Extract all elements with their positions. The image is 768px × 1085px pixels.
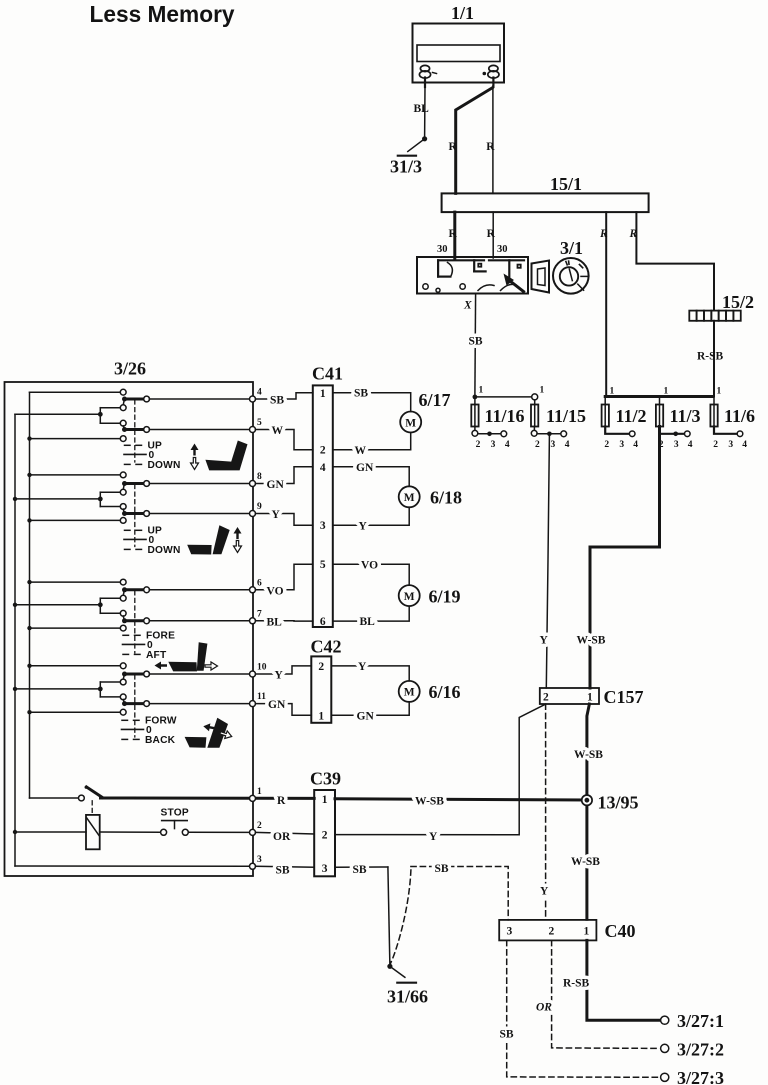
- wire GN motor 6/16 to C42 pin1: [331, 702, 409, 723]
- svg-text:4: 4: [320, 462, 326, 474]
- wire SB C39 pin3 to ground 31/66: [335, 864, 390, 966]
- wire R thick battery to 15/1: [449, 88, 493, 193]
- wire Y box pin10 to C42 pin2: [256, 666, 312, 682]
- wire SB row from bus C corner: [15, 865, 250, 867]
- svg-text:Y: Y: [359, 520, 368, 532]
- wire SB dashed jumper to C40 pin 3: [411, 863, 508, 920]
- svg-text:BL: BL: [360, 616, 376, 628]
- switch position labels: [122, 716, 177, 746]
- connector C42: [311, 656, 331, 722]
- svg-text:R: R: [277, 795, 286, 807]
- connector C39 label: [310, 769, 341, 789]
- svg-text:13/95: 13/95: [598, 793, 639, 813]
- box 3/26 terminal pin 10: [250, 663, 267, 678]
- wire VO box pin6 to C41 pin5: [256, 564, 313, 597]
- box 3/26 terminal pin 5: [250, 418, 263, 433]
- svg-text:OR: OR: [536, 1002, 552, 1014]
- wire SB C41 pin1 to motor 6/17: [333, 388, 411, 412]
- svg-text:1: 1: [479, 386, 484, 396]
- fuse 11/2: [602, 397, 647, 427]
- svg-text:3/27:2: 3/27:2: [677, 1039, 724, 1059]
- wire Y box pin9 to C41 pin3: [256, 509, 313, 525]
- box 3/26 terminal pin 11: [250, 692, 267, 707]
- svg-text:3: 3: [322, 863, 328, 875]
- fuse 11/6: [710, 397, 755, 427]
- svg-text:2: 2: [320, 445, 326, 457]
- switch group 4 common feed: [13, 679, 126, 700]
- svg-text:STOP: STOP: [161, 808, 189, 819]
- svg-text:Y: Y: [429, 831, 438, 843]
- switch group 1 alt contact row bottom: [27, 436, 126, 442]
- fuse 11/3 terminals 2 3 4: [659, 431, 693, 450]
- wire Y C42 pin2 to motor 6/16: [331, 661, 409, 681]
- wire link 11/16 to 11/15 terminal 1: [475, 386, 545, 400]
- switch group 4 alt contact row top: [27, 663, 126, 669]
- wire BL from battery negative: [414, 87, 430, 139]
- svg-text:BACK: BACK: [145, 735, 176, 746]
- fuse 11/15: [531, 400, 586, 436]
- svg-text:2: 2: [535, 440, 540, 450]
- terminal 3/27:3: [661, 1068, 724, 1085]
- svg-text:W-SB: W-SB: [415, 796, 444, 808]
- svg-text:10: 10: [257, 663, 267, 673]
- ground 31/66: [387, 964, 428, 1007]
- bus C vertical (common): [14, 414, 16, 866]
- svg-text:11/3: 11/3: [670, 406, 701, 426]
- svg-text:6/16: 6/16: [429, 682, 461, 702]
- switch group 4 blade 2: [122, 700, 150, 707]
- wire SB dashed C40 pin3 to terminal 3/27:3: [500, 940, 660, 1077]
- battery 1/1 label: [451, 3, 474, 23]
- relay solenoid: [86, 815, 100, 849]
- switch group 2 blade 2: [122, 509, 150, 516]
- svg-text:6/19: 6/19: [429, 586, 461, 606]
- svg-text:1: 1: [540, 386, 545, 396]
- svg-text:1: 1: [610, 387, 615, 397]
- wire R 15/1 to fuse 15/2: [629, 212, 715, 310]
- svg-text:5: 5: [320, 559, 326, 571]
- svg-text:15/2: 15/2: [722, 292, 754, 312]
- wire group 3 output 1 to box terminal: [149, 589, 249, 591]
- fusebox 15/1 label: [550, 174, 582, 194]
- svg-text:W: W: [272, 425, 284, 437]
- motor 6/17: [400, 390, 450, 433]
- svg-text:Y: Y: [272, 509, 281, 521]
- svg-text:4: 4: [742, 440, 747, 450]
- svg-text:SB: SB: [354, 388, 368, 400]
- wire W motor 6/17 to C41 pin2: [333, 433, 411, 457]
- switch group 1 alt contact row top: [30, 389, 127, 395]
- svg-text:W-SB: W-SB: [574, 749, 603, 761]
- connector C157: [540, 688, 599, 704]
- svg-text:11: 11: [257, 692, 266, 702]
- svg-text:4: 4: [633, 440, 638, 450]
- svg-text:GN: GN: [267, 479, 285, 491]
- ignition switch 3/1 label: [560, 238, 583, 258]
- svg-text:2: 2: [476, 440, 481, 450]
- switch group 2 alt contact row bottom: [27, 518, 126, 524]
- wire group 3 output 2 to box terminal: [149, 620, 249, 622]
- main switch blade: [85, 786, 103, 798]
- arrow right hollow group 3: [205, 662, 218, 670]
- svg-text:3/27:1: 3/27:1: [677, 1011, 724, 1031]
- svg-text:3/26: 3/26: [114, 359, 146, 379]
- node fuse 11/16 terminal 1: [473, 386, 484, 400]
- arrow left solid group 4: [203, 722, 216, 732]
- switch group 4 blade 1: [122, 671, 150, 679]
- control unit 3/26 label: [114, 359, 146, 379]
- svg-text:3: 3: [551, 440, 556, 450]
- switch group 2 alt contact row top: [27, 472, 126, 478]
- svg-text:Y: Y: [540, 635, 549, 647]
- wire R main switch to C39 pin 1 (thick): [101, 797, 315, 800]
- svg-text:3: 3: [619, 440, 624, 450]
- svg-text:1: 1: [664, 387, 669, 397]
- connector C41 label: [312, 364, 343, 384]
- wire SB box pin3 to C39 pin3: [256, 865, 315, 877]
- svg-text:2: 2: [318, 661, 324, 673]
- svg-text:R: R: [599, 228, 608, 240]
- connector C42 label: [311, 637, 342, 657]
- svg-text:2: 2: [604, 440, 609, 450]
- svg-text:C41: C41: [312, 364, 343, 384]
- terminal 3/27:1: [661, 1011, 724, 1031]
- svg-text:GN: GN: [356, 462, 374, 474]
- svg-text:1: 1: [257, 787, 262, 797]
- svg-text:SB: SB: [276, 865, 290, 877]
- svg-text:1: 1: [717, 387, 722, 397]
- switch group 1 blade 1: [122, 396, 150, 405]
- switch group 3 blade 2: [122, 616, 150, 624]
- svg-text:4: 4: [688, 440, 693, 450]
- wire group 1 output 2 to box terminal: [149, 429, 249, 431]
- wire group 2 output 1 to box terminal: [149, 483, 249, 485]
- svg-text:3: 3: [507, 926, 513, 938]
- svg-text:8: 8: [257, 472, 262, 482]
- switch group 2 mechanical linkage (dashed): [134, 485, 136, 547]
- svg-text:W-SB: W-SB: [571, 856, 600, 868]
- wire W-SB C157 pin1 to node 13/95 and C40 pin1 (thick): [571, 704, 603, 919]
- svg-text:11/6: 11/6: [724, 406, 755, 426]
- switch position labels: [124, 441, 181, 471]
- motor 6/18: [399, 486, 462, 507]
- svg-text:SB: SB: [353, 864, 367, 876]
- svg-text:2: 2: [549, 926, 555, 938]
- svg-text:Y: Y: [358, 661, 367, 673]
- connector C40: [499, 920, 596, 941]
- svg-text:M: M: [404, 687, 415, 699]
- ignition switch 3/1 body: [417, 257, 528, 294]
- control unit 3/26 box: [5, 382, 254, 876]
- seat icon group 2 (cushion tilt): [187, 525, 230, 554]
- svg-text:3: 3: [320, 520, 326, 532]
- fuse 15/2: [689, 311, 740, 321]
- svg-text:1: 1: [584, 926, 590, 938]
- svg-text:3: 3: [674, 440, 679, 450]
- wire R-SB fuse 15/2 to fuse 11/6: [697, 321, 724, 397]
- svg-text:Y: Y: [540, 886, 549, 898]
- switch group 3 alt contact row bottom: [27, 625, 126, 631]
- svg-text:30: 30: [437, 244, 448, 255]
- wire Y motor 6/18 to C41 pin3: [333, 507, 409, 532]
- box 3/26 terminal pin 7: [250, 609, 263, 624]
- wire Y C39 pin2 to connector C157 pin 2: [335, 705, 545, 844]
- seat icon group 3 (fore/aft slide): [168, 642, 207, 671]
- svg-text:30: 30: [497, 244, 508, 255]
- wire OR box pin2 to C39 pin2: [256, 831, 315, 843]
- switch group 4 mechanical linkage (dashed): [134, 675, 136, 737]
- svg-text:31/3: 31/3: [390, 157, 422, 177]
- svg-text:R: R: [449, 228, 458, 240]
- main switch feed from bus A: [30, 795, 85, 801]
- svg-text:1: 1: [318, 710, 324, 722]
- wire group 1 output 1 to box terminal: [149, 398, 249, 400]
- wire R label on thick wire at C39 pin1: [277, 795, 286, 807]
- svg-text:9: 9: [257, 502, 262, 512]
- svg-text:2: 2: [257, 821, 262, 831]
- svg-text:11/15: 11/15: [546, 406, 586, 426]
- svg-text:M: M: [404, 591, 415, 603]
- motor 6/16: [399, 681, 461, 702]
- wire VO C41 pin5 to motor 6/19: [333, 559, 409, 585]
- switch group 3 mechanical linkage (dashed): [134, 591, 136, 653]
- wire Y dashed C157 pin2 to C40 pin2: [540, 704, 549, 920]
- svg-text:2: 2: [322, 830, 328, 842]
- wire W-SB fuse 11/3 to connector C157 pin 1: [577, 427, 660, 689]
- svg-text:Y: Y: [275, 670, 284, 682]
- svg-text:6/18: 6/18: [430, 488, 462, 508]
- fuse 11/2 terminals 2 3 4: [604, 427, 638, 451]
- svg-text:C40: C40: [605, 921, 636, 941]
- svg-text:W: W: [355, 445, 367, 457]
- terminal 30 labels: [437, 244, 508, 255]
- svg-text:C39: C39: [310, 769, 341, 789]
- svg-text:4: 4: [505, 440, 510, 450]
- switch group 1 blade 2: [122, 426, 150, 433]
- switch group 3 common feed: [13, 595, 126, 616]
- svg-text:W-SB: W-SB: [577, 635, 606, 647]
- fuse 11/6 terminals 2 3 4: [713, 427, 747, 451]
- svg-text:X: X: [463, 300, 472, 312]
- svg-text:11/16: 11/16: [485, 406, 525, 426]
- svg-text:VO: VO: [361, 559, 378, 571]
- ground 31/3: [390, 139, 425, 177]
- wire GN C41 pin4 to motor 6/18: [333, 462, 409, 486]
- switch position labels: [123, 631, 176, 661]
- svg-text:3/1: 3/1: [560, 238, 583, 258]
- svg-text:1: 1: [587, 692, 593, 704]
- switch group 2 common feed: [13, 489, 126, 509]
- wire GN box pin11 to C42 pin1: [256, 699, 312, 715]
- svg-text:VO: VO: [267, 585, 284, 597]
- relay solenoid linkage (dashed): [91, 801, 93, 815]
- svg-text:R: R: [629, 228, 638, 240]
- svg-text:SB: SB: [270, 395, 284, 407]
- wire OR row from bus C through relay: [13, 830, 250, 834]
- wire group 4 output 2 to box terminal: [149, 703, 249, 705]
- wire R thin battery to 15/1: [486, 86, 495, 193]
- wire W box pin5 to C41 pin2: [256, 425, 313, 450]
- svg-text:3: 3: [491, 440, 496, 450]
- svg-text:1/1: 1/1: [451, 3, 474, 23]
- bus A vertical (feed): [29, 392, 31, 798]
- wire GN box pin8 to C41 pin4: [256, 467, 313, 491]
- seat icon group 4 (backrest recline): [185, 718, 228, 748]
- svg-text:GN: GN: [268, 699, 286, 711]
- svg-text:R: R: [449, 141, 458, 153]
- battery 1/1: [413, 24, 505, 88]
- svg-text:2: 2: [543, 692, 549, 704]
- svg-text:3: 3: [728, 440, 733, 450]
- node X label: [463, 300, 472, 312]
- svg-text:GN: GN: [357, 710, 375, 722]
- box 3/26 terminal pin 3: [250, 855, 263, 870]
- svg-text:R-SB: R-SB: [563, 978, 590, 990]
- svg-text:1: 1: [322, 794, 328, 806]
- fusebox 15/1: [442, 193, 649, 212]
- wire R 15/1 to ignition terminal 30 (thick): [449, 212, 458, 258]
- svg-text:31/66: 31/66: [387, 987, 428, 1007]
- switch group 4 alt contact row bottom: [27, 709, 126, 715]
- ignition lock cylinder: [553, 258, 589, 294]
- fuse 11/16: [471, 397, 524, 436]
- svg-text:2: 2: [713, 440, 718, 450]
- node junction on BL wire: [422, 136, 427, 141]
- svg-text:M: M: [404, 492, 415, 504]
- svg-text:BL: BL: [414, 103, 430, 115]
- svg-text:SB: SB: [469, 336, 483, 348]
- terminal 3/27:2: [661, 1039, 724, 1059]
- svg-text:11/2: 11/2: [616, 406, 647, 426]
- ignition key symbol: [532, 261, 550, 293]
- fuse 11/16 terminals 2 3 4: [476, 431, 510, 450]
- wire W-SB C39 pin1 to node 13/95 (thick): [335, 796, 587, 808]
- svg-text:6: 6: [257, 578, 262, 588]
- switch position labels: [124, 526, 181, 556]
- stop pushbutton: [161, 808, 189, 836]
- connector C41: [313, 385, 333, 628]
- arrow up solid group 2: [234, 527, 242, 539]
- arrow right hollow group 4: [219, 729, 233, 740]
- fuse 15/2 label: [722, 292, 754, 312]
- switch group 3 alt contact row top: [27, 579, 126, 585]
- svg-text:3/27:3: 3/27:3: [677, 1068, 724, 1085]
- node 13/95: [582, 793, 639, 813]
- wire SB ignition X to fuse 11/16: [469, 294, 483, 395]
- switch group 3 blade 1: [122, 587, 150, 596]
- wire group 2 output 2 to box terminal: [149, 513, 249, 515]
- arrow left solid group 3: [155, 662, 168, 670]
- svg-text:4: 4: [565, 440, 570, 450]
- wire R-SB C40 pin1 to terminal 3/27:1 (thick): [563, 940, 660, 1020]
- svg-text:15/1: 15/1: [550, 174, 582, 194]
- svg-text:AFT: AFT: [146, 650, 167, 661]
- svg-text:DOWN: DOWN: [148, 545, 181, 556]
- box 3/26 terminal pin 8: [250, 472, 263, 487]
- wire SB box pin4 to C41 pin1: [256, 393, 313, 407]
- svg-text:6: 6: [320, 616, 326, 628]
- svg-text:1: 1: [320, 388, 326, 400]
- wire group 4 output 1 to box terminal: [149, 673, 249, 675]
- svg-text:C157: C157: [604, 687, 644, 707]
- svg-text:R-SB: R-SB: [697, 351, 724, 363]
- svg-text:DOWN: DOWN: [148, 460, 181, 471]
- wire BL box pin7 to C41 pin6: [256, 616, 313, 628]
- arrow up solid group 1: [191, 444, 199, 456]
- box 3/26 terminal pin 9: [250, 502, 263, 517]
- svg-text:5: 5: [257, 418, 262, 428]
- connector C39: [314, 790, 335, 876]
- svg-text:SB: SB: [500, 1029, 514, 1041]
- box 3/26 terminal pin 4: [250, 388, 263, 403]
- svg-text:R: R: [486, 141, 495, 153]
- svg-text:4: 4: [257, 388, 262, 398]
- motor 6/19: [399, 585, 461, 606]
- wire R 15/1 to ignition terminal 30 (thin): [487, 212, 496, 258]
- svg-text:OR: OR: [273, 831, 291, 843]
- box 3/26 terminal pin 6: [250, 578, 263, 593]
- box 3/26 terminal pin 1: [250, 787, 263, 802]
- seat icon group 1 (cushion raise): [205, 441, 247, 471]
- svg-text:R: R: [487, 228, 496, 240]
- svg-text:M: M: [405, 417, 416, 429]
- svg-text:Less Memory: Less Memory: [90, 1, 235, 27]
- svg-text:3: 3: [257, 855, 262, 865]
- svg-text:SB: SB: [435, 863, 449, 875]
- switch group 1 common feed: [15, 405, 126, 426]
- svg-text:6/17: 6/17: [419, 390, 451, 410]
- title: Less Memory: [90, 1, 235, 27]
- fuse 11/15 terminals 2 3 4: [535, 431, 570, 450]
- fuse 11/3: [656, 397, 701, 427]
- switch group 2 blade 1: [122, 481, 150, 490]
- svg-text:7: 7: [257, 609, 262, 619]
- arrow down hollow group 1: [191, 458, 199, 470]
- wire dashed jumper to ground 31/66: [391, 870, 411, 964]
- wire Y fuse 11/15 to connector C157 pin 2: [540, 436, 550, 688]
- box 3/26 terminal pin 2: [250, 821, 263, 836]
- switch group 1 mechanical linkage (dashed): [134, 400, 136, 462]
- wire OR dashed C40 pin2 to terminal 3/27:2: [536, 940, 660, 1048]
- wire bus feeding fuses 11/2 11/3 11/6: [605, 387, 721, 397]
- connector C157 label: [604, 687, 644, 707]
- wire R 15/1 down to fuse 11/2 bus: [599, 212, 608, 396]
- arrow down hollow group 2: [234, 541, 242, 553]
- wire BL motor 6/19 to C41 pin6: [333, 606, 409, 628]
- svg-text:BL: BL: [267, 616, 283, 628]
- svg-text:C42: C42: [311, 637, 342, 657]
- connector C40 label: [605, 921, 636, 941]
